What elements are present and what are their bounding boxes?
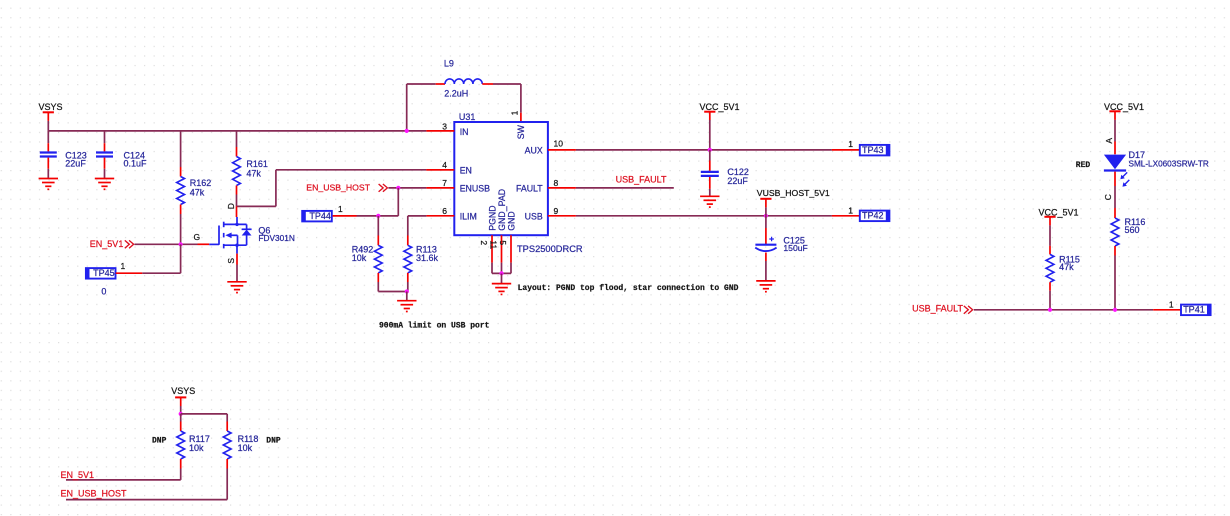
svg-text:TP42: TP42	[862, 211, 884, 221]
svg-text:11: 11	[489, 240, 499, 249]
svg-text:DNP: DNP	[152, 436, 167, 445]
svg-text:4: 4	[442, 160, 447, 170]
svg-text:22uF: 22uF	[65, 158, 86, 168]
svg-text:FDV301N: FDV301N	[258, 233, 294, 243]
svg-text:47k: 47k	[190, 187, 205, 197]
svg-text:EN_USB_HOST: EN_USB_HOST	[306, 183, 370, 193]
svg-text:TP41: TP41	[1183, 305, 1205, 315]
svg-text:2.2uH: 2.2uH	[444, 88, 468, 98]
svg-text:47k: 47k	[246, 169, 261, 179]
svg-text:EN_USB_HOST: EN_USB_HOST	[61, 488, 128, 498]
svg-text:6: 6	[442, 206, 447, 216]
svg-text:SW: SW	[516, 124, 526, 139]
svg-text:USB_FAULT: USB_FAULT	[912, 303, 963, 313]
svg-text:1: 1	[121, 261, 126, 271]
svg-text:1: 1	[848, 139, 853, 149]
svg-text:VCC_5V1: VCC_5V1	[700, 102, 740, 112]
svg-text:EN_5V1: EN_5V1	[61, 470, 95, 480]
svg-text:2: 2	[479, 240, 489, 245]
svg-text:G: G	[194, 232, 201, 242]
svg-text:0.1uF: 0.1uF	[124, 158, 148, 168]
svg-text:TP43: TP43	[862, 145, 884, 155]
svg-text:VSYS: VSYS	[171, 386, 195, 396]
svg-text:A: A	[1104, 138, 1114, 144]
svg-text:USB_FAULT: USB_FAULT	[616, 175, 667, 185]
svg-text:TP44: TP44	[309, 211, 331, 221]
svg-text:PGND: PGND	[487, 205, 497, 230]
svg-text:560: 560	[1125, 225, 1140, 235]
svg-text:ENUSB: ENUSB	[460, 184, 490, 194]
svg-text:DNP: DNP	[266, 436, 281, 445]
svg-text:SML-LX0603SRW-TR: SML-LX0603SRW-TR	[1129, 160, 1209, 169]
svg-text:D17: D17	[1129, 150, 1146, 160]
svg-text:FAULT: FAULT	[516, 184, 543, 194]
svg-text:S: S	[226, 258, 236, 264]
svg-text:AUX: AUX	[525, 146, 543, 156]
svg-text:C: C	[1103, 194, 1113, 200]
svg-text:TP45: TP45	[93, 268, 115, 278]
svg-text:EN: EN	[460, 165, 472, 175]
svg-text:150uF: 150uF	[783, 243, 807, 253]
svg-text:1: 1	[1169, 300, 1174, 310]
svg-text:3: 3	[442, 121, 447, 131]
svg-text:1: 1	[848, 205, 853, 215]
svg-text:GND_PAD: GND_PAD	[497, 189, 507, 231]
svg-text:10: 10	[554, 139, 564, 149]
svg-text:900mA limit on USB port: 900mA limit on USB port	[379, 321, 490, 330]
svg-text:47k: 47k	[1059, 262, 1074, 272]
svg-text:0: 0	[101, 287, 106, 297]
svg-text:5: 5	[498, 240, 508, 245]
svg-text:10k: 10k	[352, 253, 367, 263]
svg-text:22uF: 22uF	[727, 176, 748, 186]
svg-text:D: D	[226, 203, 236, 209]
svg-text:VSYS: VSYS	[39, 102, 63, 112]
svg-text:EN_5V1: EN_5V1	[90, 239, 124, 249]
svg-text:IN: IN	[460, 127, 469, 137]
svg-text:RED: RED	[1076, 161, 1091, 170]
svg-text:8: 8	[554, 178, 559, 188]
svg-text:9: 9	[554, 206, 559, 216]
svg-text:USB: USB	[525, 211, 543, 221]
svg-text:31.6k: 31.6k	[416, 253, 439, 263]
svg-text:VUSB_HOST_5V1: VUSB_HOST_5V1	[757, 188, 830, 198]
svg-text:R161: R161	[246, 159, 268, 169]
svg-text:L9: L9	[444, 58, 454, 68]
svg-text:U31: U31	[459, 112, 476, 122]
svg-text:GND: GND	[506, 211, 516, 231]
svg-text:7: 7	[442, 178, 447, 188]
svg-text:ILIM: ILIM	[460, 211, 477, 221]
svg-text:1: 1	[338, 204, 343, 214]
svg-text:10k: 10k	[189, 443, 204, 453]
svg-text:10k: 10k	[238, 443, 253, 453]
svg-text:TPS2500DRCR: TPS2500DRCR	[517, 244, 583, 254]
svg-text:1: 1	[510, 110, 520, 115]
svg-text:Layout: PGND top flood, star c: Layout: PGND top flood, star connection …	[518, 284, 739, 293]
